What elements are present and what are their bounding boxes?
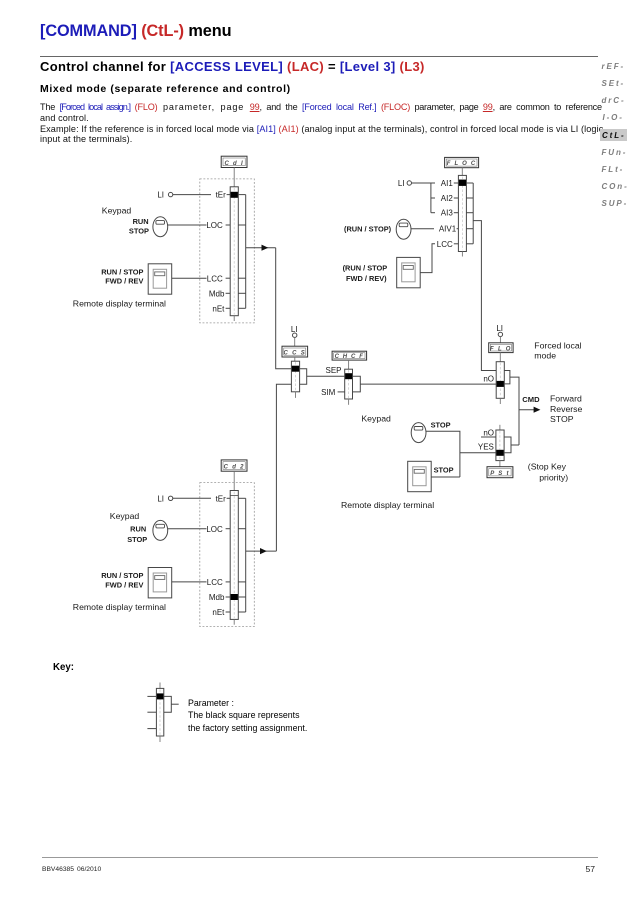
subsection title bbox=[40, 84, 291, 95]
wire PSt output up to CMD node bbox=[511, 444, 519, 446]
svg-text:LOC: LOC bbox=[206, 221, 223, 230]
wire: Cd2 label box to selector bbox=[233, 471, 235, 490]
svg-text:SIM: SIM bbox=[321, 388, 336, 397]
wire FLO output to CMD node bbox=[510, 377, 519, 445]
rule above section title bbox=[40, 56, 598, 57]
selector bar Cd2 bbox=[230, 491, 238, 625]
svg-text:(RUN / STOP): (RUN / STOP) bbox=[344, 225, 392, 234]
keypad icon (FLOC) bbox=[396, 219, 411, 239]
key input pins bbox=[147, 696, 156, 728]
label box FLO bbox=[489, 343, 513, 353]
wire: CCS box to bar bbox=[294, 357, 296, 361]
svg-text:FWD / REV: FWD / REV bbox=[105, 277, 143, 286]
wire terminal STOP to junction bbox=[431, 476, 460, 478]
svg-text:RUN: RUN bbox=[130, 524, 146, 533]
svg-text:FWD / REV: FWD / REV bbox=[105, 580, 143, 589]
selector bar CHCF bbox=[345, 369, 353, 405]
svg-text:nEt: nEt bbox=[212, 608, 225, 617]
FLOC output bus bbox=[472, 183, 474, 244]
keypad icon (STOP) bbox=[411, 423, 426, 443]
svg-text:STOP: STOP bbox=[431, 420, 451, 429]
svg-text:Mdb: Mdb bbox=[209, 593, 225, 602]
pin AI2 bbox=[441, 194, 459, 203]
svg-text:F L O: F L O bbox=[490, 346, 512, 352]
FLO output bracket bbox=[504, 371, 510, 384]
svg-text:AI2: AI2 bbox=[441, 194, 454, 203]
wire CCS output to CHCF SEP bbox=[307, 375, 345, 377]
Cd1 output bus bbox=[245, 195, 247, 309]
svg-text:(Stop Key: (Stop Key bbox=[528, 461, 567, 471]
CHCF output bracket bbox=[353, 376, 361, 392]
factory setting square AI1 bbox=[459, 180, 466, 186]
svg-text:C C S: C C S bbox=[284, 351, 307, 357]
wire LI to AI1/AI2/AI3 comb bbox=[412, 183, 436, 213]
svg-text:LI: LI bbox=[157, 494, 164, 503]
node LI (Cd2) bbox=[157, 494, 172, 503]
Cd1 dashed enclosure bbox=[200, 179, 255, 323]
label RUN / STOP FWD / REV (Cd2 terminal) bbox=[101, 571, 143, 589]
svg-text:nO: nO bbox=[483, 375, 494, 384]
wire: CHCF box to bar bbox=[348, 360, 350, 369]
svg-text:YES: YES bbox=[478, 442, 494, 451]
pin nO (PSt) bbox=[481, 429, 496, 438]
keypad icon (Cd2) bbox=[153, 520, 168, 540]
svg-text:LCC: LCC bbox=[207, 578, 223, 587]
wire: FLOC label box to selector bbox=[461, 168, 463, 176]
wire keypad STOP to junction bbox=[426, 431, 460, 477]
label Forward Reverse STOP bbox=[550, 394, 583, 424]
factory setting square nO (FLO) bbox=[497, 381, 504, 387]
pin AI1 bbox=[441, 179, 459, 188]
pin tEr bbox=[216, 191, 231, 200]
wire Cd2 output with arrow bbox=[246, 548, 277, 554]
svg-text:nO: nO bbox=[483, 429, 494, 438]
Cd2 output bus ticks bbox=[238, 498, 245, 612]
label RUN/STOP (Cd2 keypad) bbox=[127, 524, 147, 543]
svg-text:C d 2: C d 2 bbox=[224, 465, 245, 471]
footer bbox=[42, 857, 598, 858]
selector bar FLO bbox=[496, 362, 504, 404]
svg-text:STOP: STOP bbox=[434, 465, 454, 474]
svg-text:LCC: LCC bbox=[437, 240, 453, 249]
key output bracket bbox=[164, 696, 179, 712]
svg-text:STOP: STOP bbox=[129, 227, 149, 236]
PSt output bracket bbox=[504, 437, 511, 453]
Cd1 output bus ticks bbox=[238, 195, 245, 309]
factory setting square YES bbox=[496, 450, 503, 456]
keypad icon (Cd1) bbox=[153, 217, 168, 237]
svg-text:Remote display terminal: Remote display terminal bbox=[341, 500, 434, 510]
selector bar FLOC bbox=[458, 175, 466, 256]
node LI (FLO) bbox=[496, 324, 503, 337]
wire CMD arrow bbox=[519, 407, 540, 413]
remote display terminal icon (FLOC) bbox=[397, 257, 421, 287]
node LI (Cd1) bbox=[157, 191, 172, 200]
key factory setting square bbox=[157, 693, 164, 699]
label box Cd1 bbox=[221, 156, 247, 167]
wire terminal to LCC bbox=[172, 277, 207, 279]
label box FLOC bbox=[445, 157, 479, 167]
wire: Cd1 label box to selector bbox=[233, 168, 235, 187]
svg-text:SEP: SEP bbox=[325, 366, 341, 375]
wire LI to CCS box bbox=[294, 337, 296, 346]
remote display terminal icon (Cd1) bbox=[148, 264, 172, 294]
svg-text:Keypad: Keypad bbox=[110, 511, 140, 521]
svg-text:LI: LI bbox=[496, 324, 503, 333]
label RUN/STOP (Cd1 keypad) bbox=[129, 217, 149, 236]
svg-text:RUN / STOP: RUN / STOP bbox=[101, 267, 143, 276]
svg-text:AI1: AI1 bbox=[441, 179, 454, 188]
factory setting square SEP bbox=[345, 373, 352, 379]
svg-text:Forward: Forward bbox=[550, 394, 582, 404]
svg-text:AI3: AI3 bbox=[441, 209, 454, 218]
svg-text:LI: LI bbox=[291, 325, 298, 334]
wire FLOC output down to FLO input 1 bbox=[473, 221, 496, 371]
pin AIV1 bbox=[439, 225, 459, 234]
wire LI to FLO box bbox=[499, 337, 501, 343]
svg-text:Keypad: Keypad bbox=[361, 413, 391, 423]
svg-text:P S t: P S t bbox=[490, 471, 510, 477]
pin SIM bbox=[321, 388, 345, 397]
pin LCC bbox=[207, 274, 230, 283]
svg-text:LI: LI bbox=[157, 191, 164, 200]
pin Mdb bbox=[209, 289, 230, 298]
svg-text:LOC: LOC bbox=[206, 525, 223, 534]
wire Cd2 to CCS input 2 bbox=[276, 384, 291, 551]
label box Cd2 bbox=[221, 460, 247, 471]
wire CHCF output to FLO nO bbox=[360, 383, 496, 385]
factory setting square tEr bbox=[231, 192, 238, 198]
right side menu bbox=[0, 0, 638, 1]
svg-text:(RUN / STOP: (RUN / STOP bbox=[343, 264, 388, 273]
FLOC output bus ticks bbox=[466, 183, 473, 244]
wire junction to YES pin bbox=[460, 452, 496, 454]
svg-text:RUN: RUN bbox=[133, 217, 149, 226]
node LI (CCS) bbox=[291, 325, 298, 338]
CCS output bracket bbox=[300, 369, 307, 385]
svg-text:LCC: LCC bbox=[207, 274, 223, 283]
svg-text:CMD: CMD bbox=[522, 395, 540, 404]
wire keypad to LOC bbox=[168, 224, 207, 226]
label box PSt bbox=[487, 467, 513, 478]
pin LCC (Cd2) bbox=[207, 578, 230, 587]
label (RUN / STOP FWD / REV) bbox=[343, 264, 388, 283]
pin nEt bbox=[212, 304, 230, 313]
label Forced local mode bbox=[534, 340, 581, 360]
key section bbox=[53, 662, 74, 673]
node LI (FLOC) bbox=[398, 179, 412, 188]
remote display terminal icon (STOP) bbox=[408, 461, 432, 491]
pin LCC (FLOC) bbox=[437, 240, 459, 249]
factory setting square Mdb (Cd2) bbox=[231, 594, 238, 600]
wire terminal to LCC (FLOC) bbox=[420, 244, 435, 273]
svg-text:nEt: nEt bbox=[212, 304, 225, 313]
svg-text:F L O C: F L O C bbox=[447, 161, 477, 167]
svg-text:tEr: tEr bbox=[216, 191, 227, 200]
wire Cd1 to CCS input 1 bbox=[276, 248, 292, 369]
body text bbox=[40, 103, 602, 112]
svg-text:LI: LI bbox=[398, 179, 405, 188]
svg-text:C d I: C d I bbox=[224, 161, 244, 167]
wire LI to tEr (Cd2) bbox=[173, 497, 211, 499]
pin Mdb (Cd2) bbox=[209, 593, 230, 602]
page title bbox=[40, 23, 231, 39]
svg-text:Remote display terminal: Remote display terminal bbox=[73, 298, 166, 308]
wire keypad to LOC (Cd2) bbox=[168, 528, 207, 530]
wire LI to tEr bbox=[173, 194, 211, 196]
remote display terminal icon (Cd2) bbox=[148, 568, 172, 598]
pin nEt (Cd2) bbox=[212, 608, 230, 617]
svg-text:STOP: STOP bbox=[127, 535, 147, 544]
svg-text:Remote display terminal: Remote display terminal bbox=[73, 602, 166, 612]
label RUN / STOP FWD / REV (Cd1 terminal) bbox=[101, 267, 143, 285]
key selector bar bbox=[156, 683, 163, 743]
wire terminal to LCC (Cd2) bbox=[172, 581, 207, 583]
selector bar PSt bbox=[496, 425, 504, 467]
svg-text:RUN / STOP: RUN / STOP bbox=[101, 571, 143, 580]
selector bar Cd1 bbox=[230, 187, 238, 321]
pin LOC bbox=[206, 221, 230, 230]
svg-text:C H C F: C H C F bbox=[335, 354, 364, 360]
wire Cd1 output with arrow bbox=[246, 245, 276, 251]
svg-text:tEr: tEr bbox=[216, 494, 227, 503]
label box CCS bbox=[282, 346, 308, 357]
pin tEr (Cd2) bbox=[216, 494, 231, 503]
wire: FLO box to bar bbox=[499, 353, 501, 362]
svg-text:priority): priority) bbox=[539, 473, 568, 483]
svg-text:Keypad: Keypad bbox=[102, 205, 132, 215]
pin LOC (Cd2) bbox=[206, 525, 230, 534]
Cd2 dashed enclosure bbox=[200, 483, 255, 627]
Cd2 output bus bbox=[245, 498, 247, 612]
svg-text:FWD / REV): FWD / REV) bbox=[346, 274, 387, 283]
svg-text:Forced local: Forced local bbox=[534, 340, 581, 350]
factory setting square CCS input 1 bbox=[292, 366, 299, 372]
wire keypad to AIV1 bbox=[411, 228, 434, 230]
label box CHCF bbox=[332, 351, 367, 360]
svg-text:AIV1: AIV1 bbox=[439, 225, 457, 234]
svg-text:STOP: STOP bbox=[550, 414, 574, 424]
label (Stop Key priority) bbox=[528, 461, 568, 482]
svg-text:mode: mode bbox=[534, 351, 556, 361]
svg-text:Mdb: Mdb bbox=[209, 289, 225, 298]
pin AI3 bbox=[441, 209, 459, 218]
svg-text:Reverse: Reverse bbox=[550, 404, 583, 414]
section title bbox=[40, 60, 425, 73]
selector bar CCS bbox=[291, 361, 299, 398]
